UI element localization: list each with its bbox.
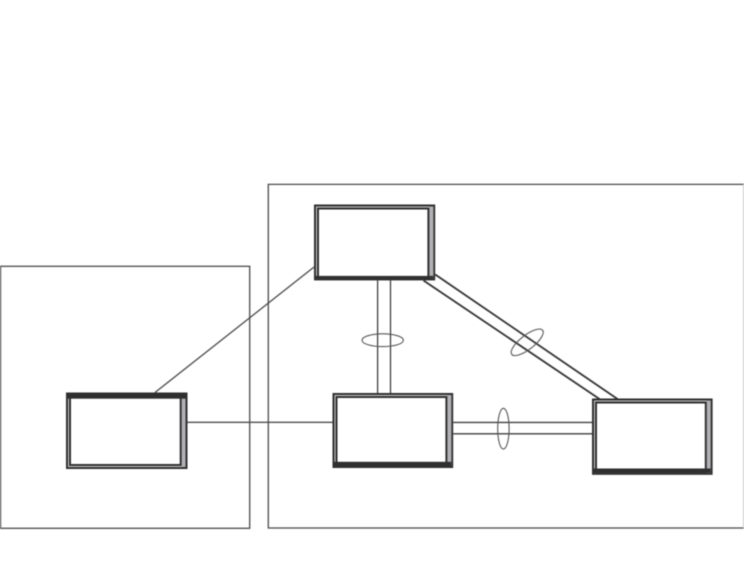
node top (beveled box, thick bottom) — [314, 205, 435, 281]
node left (beveled box, thick top) — [66, 393, 188, 470]
wire: diagonal double link top-node to right-node (upper line) — [435, 275, 617, 400]
ellipse marker on vertical double link — [362, 334, 403, 347]
wire: diagonal single link left-node to top-node — [155, 267, 314, 392]
wire: diagonal double link top-node to right-node (lower line) — [424, 281, 600, 400]
wire: horizontal double link center-node to right-node (upper line) — [453, 421, 592, 423]
wire: horizontal single link left-node to center-node — [188, 421, 333, 423]
wire: horizontal double link center-node to right-node (lower line) — [453, 433, 592, 435]
ellipse marker on horizontal double link (vertical) — [498, 408, 509, 449]
node right (beveled box, thick bottom) — [592, 399, 713, 475]
wire: vertical double link top-node to center-node (right line) — [390, 280, 392, 393]
node center (beveled box, thick bottom) — [333, 393, 454, 468]
boundary rectangle left (outer frame) — [1, 266, 250, 528]
ellipse marker on diagonal double link (rotated) — [507, 325, 547, 360]
boundary rectangle right: faint clipped right edge — [743, 184, 744, 528]
boundary rectangle right (outer frame, open right side) — [268, 184, 744, 528]
wire: vertical double link top-node to center-node (left line) — [377, 280, 379, 393]
